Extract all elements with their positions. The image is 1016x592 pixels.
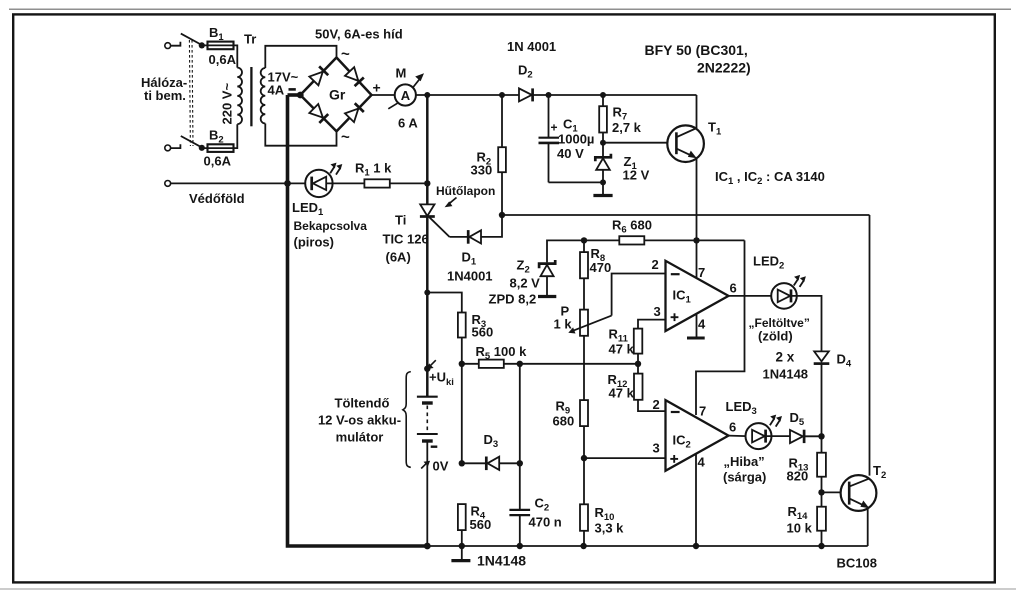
capacitor C2: [509, 509, 530, 511]
wire supply row y215: [502, 214, 870, 216]
resistor R2: [501, 95, 503, 147]
wire R12 bottom to IC2 pin2: [638, 400, 666, 411]
resistor R14: [817, 507, 826, 531]
svg-text:6: 6: [729, 420, 736, 435]
svg-text:~: ~: [341, 129, 350, 146]
LED3: [746, 423, 772, 449]
wire T2 base: [822, 491, 850, 493]
wire fuse B1 to primary: [234, 45, 238, 67]
LED1: [305, 170, 332, 197]
svg-text:2,7 k: 2,7 k: [612, 120, 642, 135]
svg-text:470 n: 470 n: [529, 515, 562, 530]
T2 emitter with arrow: [849, 498, 866, 506]
wire 0V row to D3: [462, 462, 488, 464]
outer page border line top: [9, 8, 1011, 10]
bridge diode top-right: [345, 67, 364, 86]
node D3 / C2 column: [517, 460, 523, 466]
svg-text:6: 6: [730, 281, 737, 296]
svg-text:3: 3: [654, 304, 661, 319]
node top rail / C1: [546, 92, 552, 98]
resistor R4: [458, 504, 466, 530]
transistor T2: [841, 475, 877, 511]
LED3 light arrows: [770, 418, 780, 426]
svg-text:3,3 k: 3,3 k: [595, 521, 625, 536]
wire P to R9: [583, 336, 585, 400]
terminal: Vedofold: [165, 181, 171, 187]
wire IC2 output to LED3: [729, 435, 747, 438]
svg-text:12 V-os akku-: 12 V-os akku-: [318, 413, 401, 428]
0V terminal arrow: [421, 463, 427, 469]
zener Z1: [595, 154, 611, 162]
svg-text:Védőföld: Védőföld: [189, 191, 245, 206]
transistor T1: [667, 125, 704, 162]
bridge diode bottom-left: [309, 104, 328, 123]
svg-text:2: 2: [652, 257, 659, 272]
switch blade S2: [181, 136, 202, 147]
ground rail bottom: [427, 545, 867, 547]
svg-text:1N4001: 1N4001: [447, 269, 493, 284]
svg-text:12 V: 12 V: [623, 168, 650, 183]
+Uki terminal arrow: [430, 360, 436, 366]
svg-text:220 V~: 220 V~: [220, 83, 235, 125]
T1 collector: [696, 95, 698, 128]
terminal: mains input bottom: [165, 145, 171, 151]
thyristor gate lead: [429, 217, 449, 237]
transformer core: [250, 67, 252, 126]
svg-text:10 k: 10 k: [787, 521, 813, 536]
svg-text:330: 330: [471, 163, 493, 178]
node left rail / LED1 row: [284, 180, 291, 187]
wire R5 left: [462, 363, 479, 365]
node R3 / R5: [459, 361, 465, 367]
svg-text:3: 3: [653, 441, 660, 456]
svg-text:+: +: [551, 121, 558, 135]
wire P wiper to IC1 pin2: [612, 274, 666, 316]
node rail / R4: [459, 543, 465, 549]
diode D3: [485, 457, 488, 471]
fuse B1: [208, 42, 234, 50]
wire primary to fuse B2: [234, 124, 238, 148]
LED1 light arrows: [330, 166, 340, 174]
wire Vedofold row: [171, 182, 312, 184]
T2 collector: [849, 478, 869, 486]
wire C2 column upper: [519, 364, 521, 510]
IC2 pin4 stub to ground rail: [695, 454, 697, 546]
svg-text:ti bem.: ti bem.: [144, 88, 186, 103]
svg-text:ZPD 8,2: ZPD 8,2: [489, 292, 537, 307]
node bridge negative corner: [297, 92, 304, 99]
svg-text:Gr: Gr: [329, 87, 346, 103]
resistor R10: [580, 504, 588, 531]
node top rail / R2: [499, 92, 505, 98]
svg-text:1000µ: 1000µ: [558, 132, 594, 147]
node 0V row / R3R4 column: [459, 460, 465, 466]
svg-text:2: 2: [653, 397, 660, 412]
node R7 base junction: [600, 140, 606, 146]
potentiometer P: [580, 310, 588, 336]
svg-text:Ti: Ti: [395, 213, 406, 228]
wire R8 to P: [583, 278, 585, 309]
svg-text:(piros): (piros): [294, 235, 334, 250]
svg-text:40 V: 40 V: [557, 146, 584, 161]
P wiper arrow: [573, 316, 612, 331]
minus sign (bridge negative): [289, 88, 296, 91]
node R3 branch on charge column: [424, 290, 430, 296]
ground (IC1 pin4): [687, 337, 705, 340]
left rail (thick): [288, 95, 428, 546]
resistor R9: [580, 400, 588, 426]
outer page border line bottom: [0, 588, 1016, 590]
battery middle (dashed): [426, 406, 428, 432]
node rail / IC2 pin4: [693, 543, 699, 549]
wire LED1 to R1: [326, 182, 364, 184]
op-amp IC1: [666, 261, 729, 331]
wire bridge negative to left rail (thick): [288, 93, 301, 97]
transformer Tr secondary winding: [261, 68, 266, 123]
battery cell 1 long plate: [417, 396, 438, 398]
svg-text:2 x: 2 x: [776, 350, 795, 365]
svg-text:~: ~: [341, 46, 350, 63]
svg-text:1N4148: 1N4148: [763, 367, 809, 382]
node R2 / D1 / supply row: [499, 212, 505, 218]
LED2 light arrows: [794, 279, 804, 287]
battery minus sign: [431, 446, 438, 448]
wire IC2 supply jog from R6 row: [696, 240, 745, 415]
wire to R3: [427, 293, 462, 313]
op-amp IC2: [666, 400, 729, 471]
svg-text:(zöld): (zöld): [758, 329, 793, 344]
wire R13 to base node: [821, 477, 823, 507]
wire T1 emitter down to R6 row: [696, 158, 698, 241]
resistor R12: [637, 364, 639, 374]
svg-text:4: 4: [698, 455, 706, 470]
resistor R8: [583, 240, 585, 252]
svg-text:8,2 V: 8,2 V: [510, 276, 541, 291]
Hutolapon arrow: [449, 198, 457, 205]
svg-text:680: 680: [553, 414, 575, 429]
diode D4: [814, 351, 829, 361]
IC2 plus input sign: [670, 458, 678, 460]
capacitor C1: [539, 137, 560, 139]
battery brace: [403, 372, 411, 468]
node R5 / C2 column: [517, 361, 523, 367]
wire Z1 to ground: [602, 170, 604, 195]
resistor R3: [458, 313, 466, 338]
svg-text:Tr: Tr: [244, 32, 256, 47]
node rail / R14: [818, 543, 824, 549]
wire R11 top to IC1 pin3: [638, 320, 666, 329]
node top rail / R7: [600, 92, 606, 98]
wire right column down to T2 collector: [869, 215, 871, 476]
LED2: [771, 283, 797, 309]
terminal: mains input top: [165, 43, 171, 49]
wire D4 to D5 node: [821, 364, 823, 437]
wire secondary bottom to bridge bottom: [265, 124, 336, 146]
svg-text:470: 470: [590, 260, 612, 275]
node R9 / R10 / IC2 pin3: [581, 455, 587, 461]
svg-text:BFY 50 (BC301,: BFY 50 (BC301,: [645, 42, 748, 58]
wire base T1: [603, 142, 676, 144]
node R11 / R12 / R5 row: [635, 361, 641, 367]
ground (below Z1): [593, 194, 612, 197]
diode D2: [519, 88, 532, 101]
svg-text:560: 560: [472, 325, 494, 340]
IC1 pin4 ground stub: [696, 314, 698, 337]
node top rail / thyristor column: [424, 92, 430, 98]
node D4 / D5 / R13: [818, 433, 824, 439]
svg-text:„Hiba”: „Hiba”: [724, 454, 765, 469]
IC1 plus input sign: [671, 316, 679, 318]
svg-text:Töltendő: Töltendő: [335, 396, 390, 411]
wire node to R10: [583, 458, 585, 504]
wire LED3 to D5: [766, 435, 790, 437]
zener Z2: [539, 260, 555, 268]
node +Uki: [424, 366, 430, 372]
node rail / R10: [580, 543, 586, 549]
svg-text:820: 820: [787, 469, 809, 484]
svg-text:47 k: 47 k: [609, 386, 635, 401]
T1 emitter with arrow: [676, 149, 693, 157]
diode D1: [469, 230, 481, 243]
svg-text:560: 560: [470, 517, 492, 532]
node rail / battery minus: [424, 543, 431, 550]
wire R3 bottom to R4 top: [461, 338, 463, 464]
svg-text:(6A): (6A): [386, 250, 411, 265]
ammeter needle arrow: [388, 103, 397, 109]
diode D5: [790, 430, 803, 443]
svg-text:0V: 0V: [433, 459, 449, 474]
wire D5 to node: [804, 435, 821, 437]
resistor R13: [821, 436, 823, 452]
svg-text:Hűtőlapon: Hűtőlapon: [436, 184, 495, 198]
wire C1 to Z1 ground node: [549, 181, 604, 183]
svg-text:0,6A: 0,6A: [209, 52, 237, 67]
ground symbol (bottom rail): [461, 546, 463, 560]
switch blade S1: [181, 34, 202, 45]
wire D1 anode branch: [481, 215, 502, 237]
svg-text:7: 7: [698, 265, 705, 280]
wire R5 right to R11/R12 node: [504, 363, 638, 365]
wire secondary top to bridge top: [265, 46, 336, 68]
bridge diode bottom-right: [345, 103, 364, 122]
op-amp IC1 pin7 stub: [696, 240, 698, 280]
ammeter M: [395, 84, 416, 105]
svg-text:(sárga): (sárga): [723, 470, 766, 485]
wire R9 to pin3 node: [583, 426, 585, 458]
IC2 minus input sign: [671, 411, 680, 413]
wire IC2 pin3 row: [584, 457, 666, 459]
thyristor Ti: [420, 204, 434, 216]
wire IC1 output to LED2: [729, 295, 772, 297]
bridge diode top-left: [309, 66, 328, 85]
node R6 row / R8: [581, 237, 587, 243]
battery cell 1 short plate: [422, 401, 433, 404]
svg-text:7: 7: [699, 404, 706, 419]
switch contact node S2: [199, 145, 205, 151]
svg-text:A: A: [401, 88, 411, 103]
svg-text:1 k: 1 k: [554, 317, 573, 332]
switch contact node S1: [199, 42, 205, 48]
wire C1 bottom: [548, 143, 550, 182]
svg-text:BC108: BC108: [837, 556, 877, 571]
bridge rectifier Gr diamond outline: [300, 58, 371, 132]
svg-text:1N4148: 1N4148: [477, 553, 526, 569]
transformer Tr primary winding: [237, 68, 242, 125]
resistor R11: [637, 354, 639, 364]
thyristor Ti column (anode from rail to cathode down): [426, 95, 429, 396]
wire bridge positive to ammeter: [372, 94, 395, 96]
svg-text:TIC 126: TIC 126: [383, 232, 429, 247]
battery cell 2 long plate: [417, 433, 438, 435]
svg-text:4: 4: [698, 317, 706, 332]
battery cell 2 short plate: [422, 439, 433, 442]
wire stub terminal 2: [171, 144, 181, 148]
svg-text:50V, 6A-es híd: 50V, 6A-es híd: [315, 27, 403, 42]
wire stub terminal 1: [171, 42, 181, 46]
svg-text:4A: 4A: [268, 83, 285, 98]
wire LED2 to D4 column: [791, 296, 822, 352]
svg-text:mulátor: mulátor: [336, 430, 384, 445]
svg-text:2N2222): 2N2222): [697, 60, 751, 76]
wire top rail: [416, 94, 697, 96]
svg-text:Bekapcsolva: Bekapcsolva: [294, 219, 368, 233]
wire battery minus down to ground rail: [426, 441, 428, 546]
switch mechanical link (dashed): [189, 40, 193, 146]
svg-text:6 A: 6 A: [398, 116, 418, 131]
svg-text:47 k: 47 k: [609, 342, 635, 357]
resistor R7: [602, 95, 604, 106]
wire D3 to C2 column: [499, 462, 520, 464]
resistor R6: [619, 236, 644, 244]
wire R6 row left corner to Z2: [547, 240, 745, 262]
capacitor C1 wire top: [548, 95, 550, 137]
IC1 minus input sign: [671, 273, 680, 275]
Z2 end bar: [538, 295, 556, 298]
resistor R1: [364, 179, 389, 187]
node R1 / Ti anode: [424, 180, 430, 186]
svg-text:+: +: [373, 80, 381, 96]
node Z1 / C1: [600, 179, 606, 185]
wire T2 emitter to ground rail: [867, 507, 869, 546]
wire D1 cathode to gate: [450, 236, 469, 238]
node R13 / R14 / T2 base: [818, 489, 824, 495]
resistor R5: [479, 360, 504, 368]
node R6 row / T1 emitter / IC1 pin7: [693, 237, 699, 243]
svg-text:0,6A: 0,6A: [204, 154, 232, 169]
svg-text:1N 4001: 1N 4001: [507, 39, 556, 54]
fuse B2: [208, 144, 234, 152]
node rail / C2: [517, 543, 523, 549]
svg-text:M: M: [396, 66, 407, 81]
wire R1 to Ti column: [390, 182, 428, 184]
